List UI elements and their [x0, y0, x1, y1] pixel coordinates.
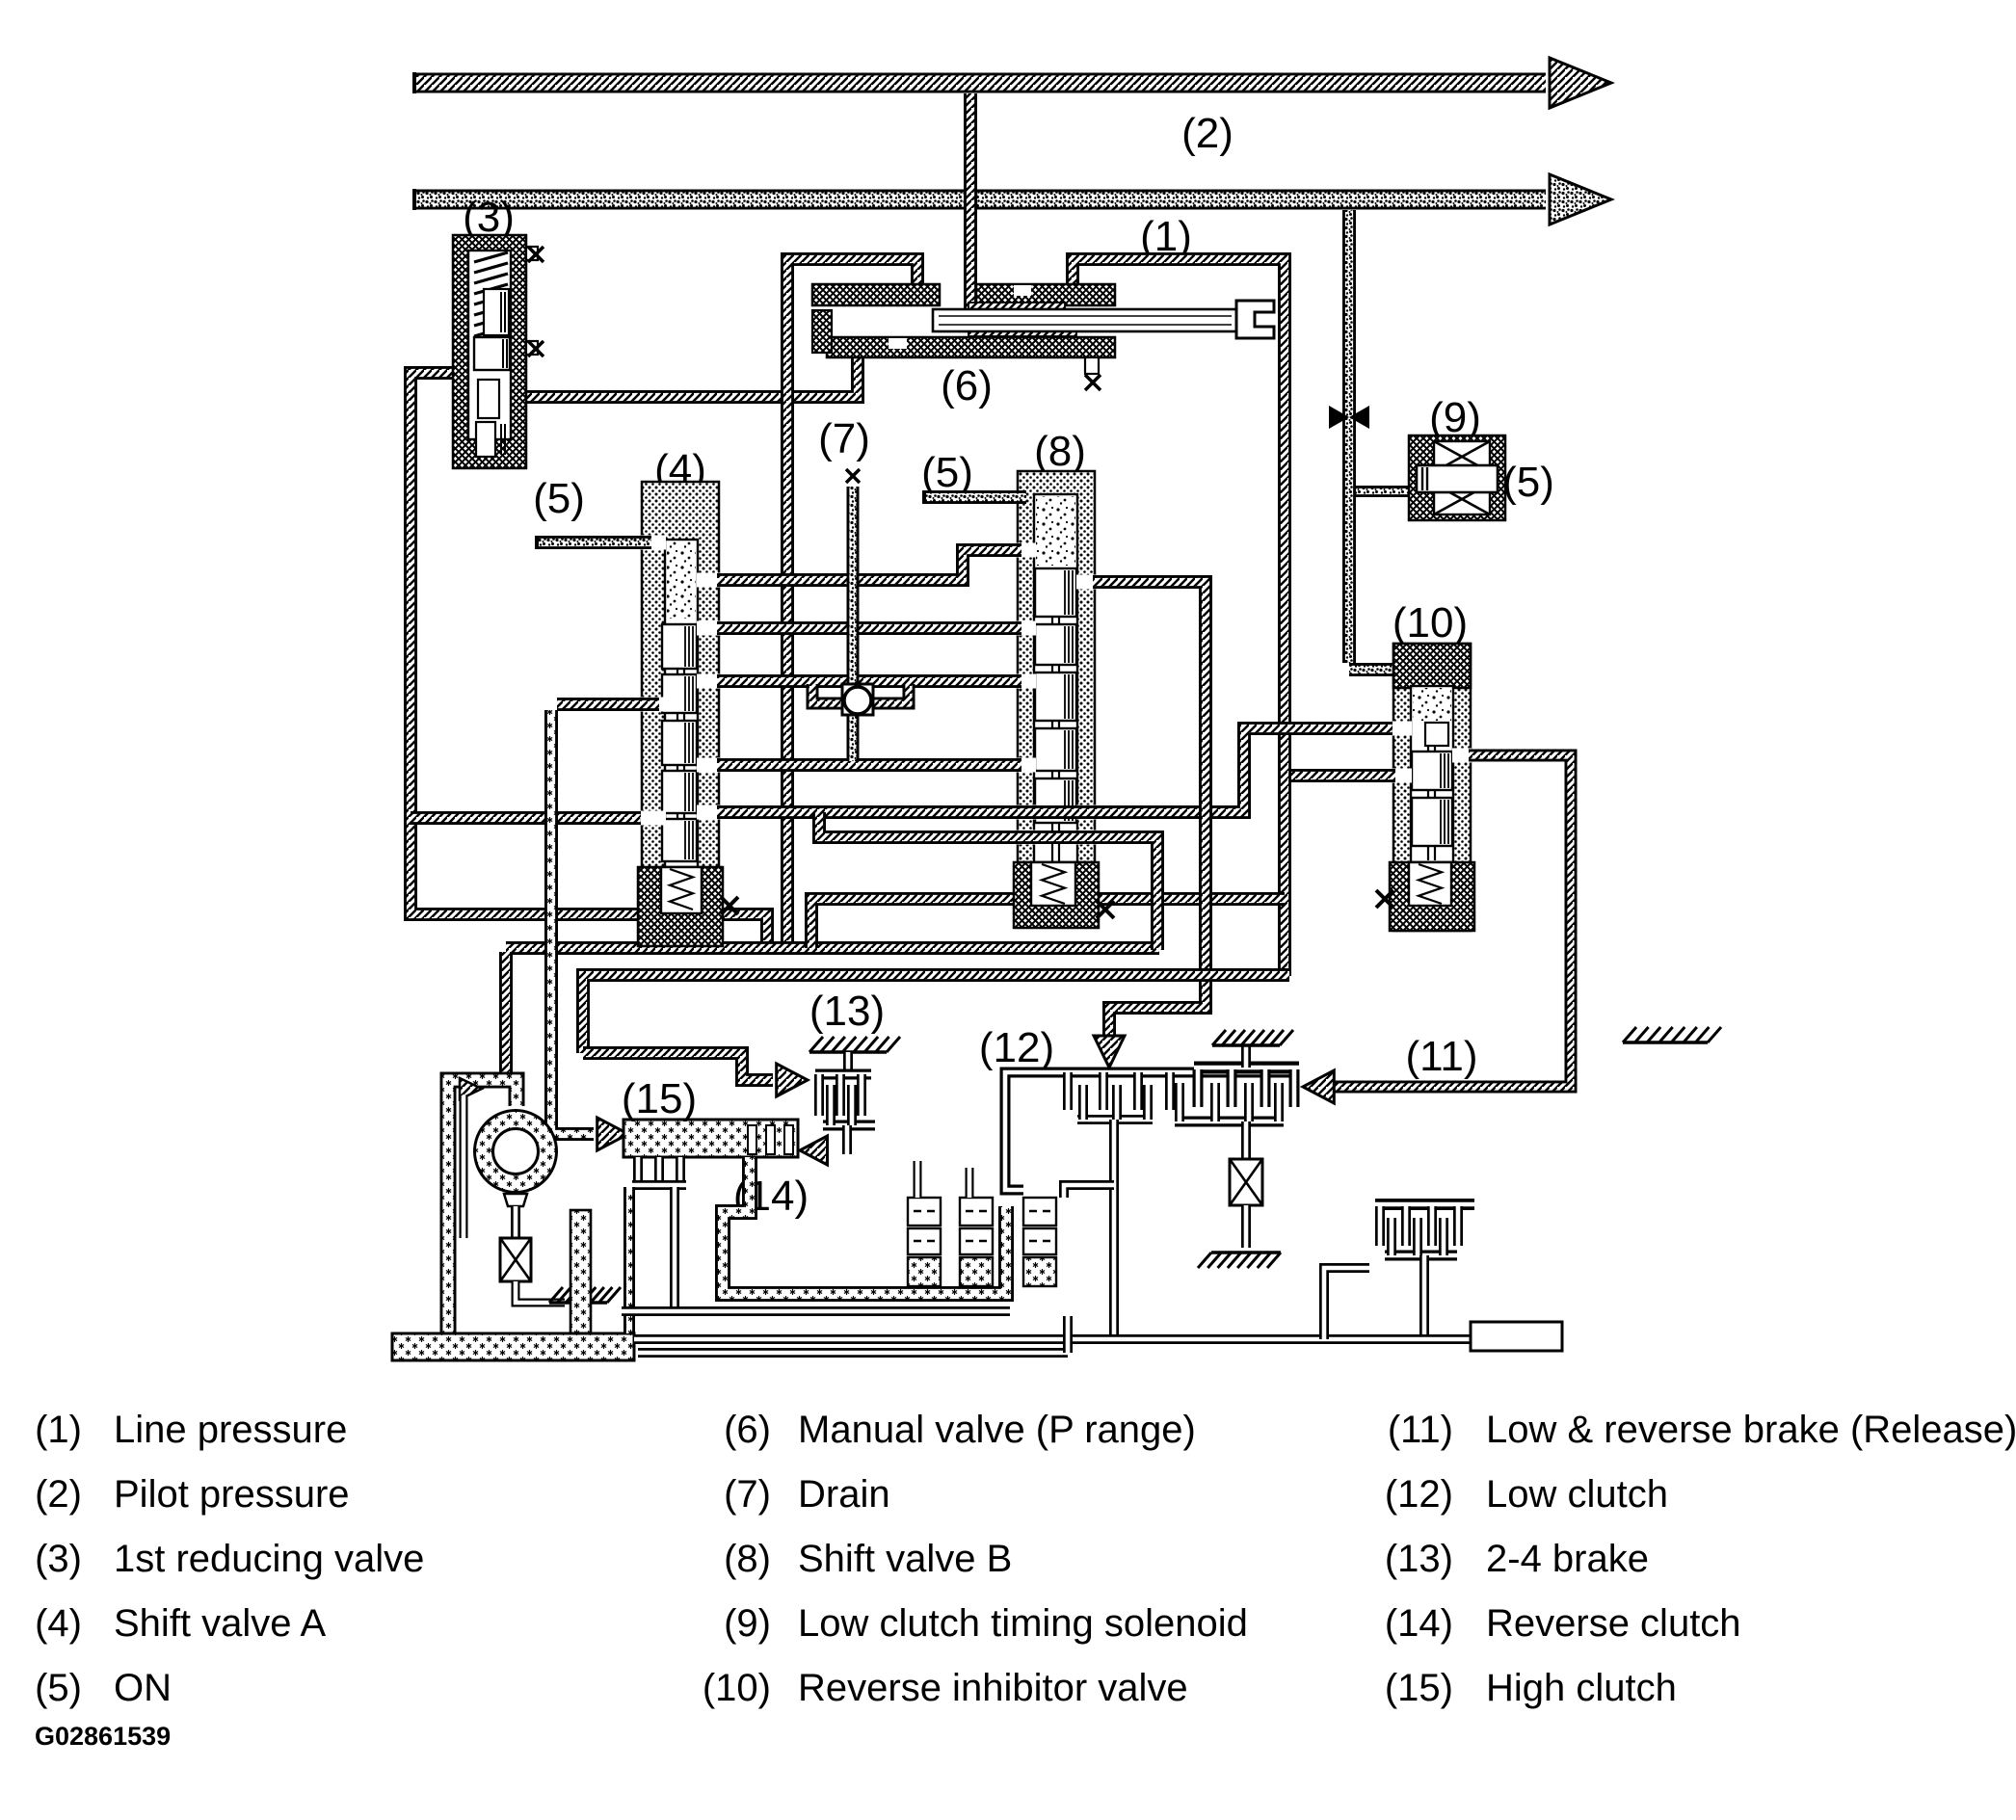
svg-text:(3): (3): [35, 1538, 82, 1580]
svg-text:(7): (7): [818, 415, 870, 462]
svg-text:(8): (8): [724, 1538, 771, 1580]
svg-text:(4): (4): [35, 1602, 82, 1645]
svg-text:G02861539: G02861539: [35, 1722, 171, 1751]
svg-text:Reverse clutch: Reverse clutch: [1486, 1602, 1741, 1645]
svg-text:(7): (7): [724, 1473, 771, 1516]
svg-text:Drain: Drain: [798, 1473, 890, 1516]
svg-text:Line pressure: Line pressure: [114, 1409, 347, 1451]
svg-text:2-4 brake: 2-4 brake: [1486, 1538, 1649, 1580]
svg-text:(5): (5): [533, 475, 585, 522]
svg-text:(5): (5): [921, 449, 973, 496]
svg-text:Low & reverse brake (Release): Low & reverse brake (Release): [1486, 1409, 2016, 1451]
svg-text:(2): (2): [35, 1473, 82, 1516]
svg-text:(12): (12): [979, 1024, 1054, 1071]
svg-text:Reverse inhibitor valve: Reverse inhibitor valve: [798, 1667, 1188, 1709]
svg-text:(6): (6): [724, 1409, 771, 1451]
svg-text:(8): (8): [1034, 428, 1086, 475]
svg-text:(15): (15): [1385, 1667, 1453, 1709]
svg-text:(1): (1): [35, 1409, 82, 1451]
svg-text:(12): (12): [1385, 1473, 1453, 1516]
svg-text:ON: ON: [114, 1667, 172, 1709]
svg-text:(15): (15): [622, 1075, 697, 1122]
svg-text:(9): (9): [1429, 394, 1481, 441]
svg-text:(13): (13): [1385, 1538, 1453, 1580]
svg-text:(11): (11): [1388, 1409, 1453, 1451]
svg-text:Shift valve A: Shift valve A: [114, 1602, 326, 1645]
svg-text:(9): (9): [724, 1602, 771, 1645]
svg-text:(3): (3): [463, 194, 515, 241]
svg-text:(10): (10): [1393, 599, 1468, 646]
svg-text:Low clutch: Low clutch: [1486, 1473, 1668, 1516]
svg-text:(2): (2): [1181, 110, 1233, 157]
svg-text:High clutch: High clutch: [1486, 1667, 1677, 1709]
svg-text:(10): (10): [703, 1667, 771, 1709]
svg-text:Pilot pressure: Pilot pressure: [114, 1473, 350, 1516]
svg-text:Low clutch timing solenoid: Low clutch timing solenoid: [798, 1602, 1248, 1645]
svg-text:(5): (5): [35, 1667, 82, 1709]
svg-text:(14): (14): [1385, 1602, 1453, 1645]
svg-text:(5): (5): [1502, 459, 1554, 506]
svg-text:(13): (13): [809, 988, 885, 1035]
svg-text:1st reducing valve: 1st reducing valve: [114, 1538, 424, 1580]
svg-text:Manual valve (P range): Manual valve (P range): [798, 1409, 1196, 1451]
svg-text:(6): (6): [941, 362, 993, 409]
svg-text:Shift valve B: Shift valve B: [798, 1538, 1012, 1580]
svg-text:(11): (11): [1406, 1033, 1478, 1080]
